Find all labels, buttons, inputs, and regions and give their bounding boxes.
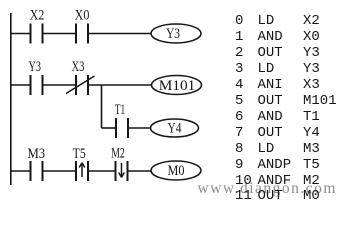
contact M3 bbox=[31, 161, 43, 181]
wire rung3: T5 to M2 bbox=[88, 170, 116, 172]
svg-text:X3: X3 bbox=[72, 59, 85, 75]
watermark www.diangon.com bbox=[198, 180, 337, 198]
down arrow of contact M2 bbox=[119, 163, 125, 177]
instruction list opcodes bbox=[258, 14, 292, 205]
svg-text:M2: M2 bbox=[111, 146, 125, 162]
slash of contact X3 bbox=[66, 76, 95, 94]
svg-text:X0: X0 bbox=[75, 8, 90, 24]
wire branch: junction to T1 bbox=[102, 127, 117, 129]
wire rung2: rail to Y3 contact bbox=[11, 84, 31, 86]
contact X2 bbox=[31, 24, 43, 44]
contact T5 (rising edge) bbox=[76, 161, 88, 181]
contact Y3 bbox=[31, 75, 43, 95]
svg-text:M101: M101 bbox=[159, 78, 196, 94]
svg-text:Y4: Y4 bbox=[168, 121, 182, 137]
wire rung1: rail to X2 bbox=[11, 33, 31, 35]
wire rung3: rail to M3 bbox=[11, 170, 31, 172]
svg-text:T5: T5 bbox=[73, 146, 86, 162]
wire branch: T1 to coil Y4 bbox=[128, 127, 151, 129]
svg-text:M3: M3 bbox=[27, 146, 45, 162]
instruction list step numbers bbox=[235, 14, 252, 205]
coil M101 bbox=[152, 76, 202, 95]
contact T1 bbox=[116, 118, 128, 138]
svg-text:Y3: Y3 bbox=[166, 26, 180, 42]
left power rail bbox=[10, 13, 12, 185]
svg-text:T1: T1 bbox=[115, 102, 126, 118]
contact X0 bbox=[76, 24, 88, 44]
wire rung3: M3 to T5 bbox=[43, 170, 77, 172]
contact X3 (normally closed) bbox=[76, 75, 88, 95]
wire rung1: X0 to coil Y3 bbox=[88, 33, 151, 35]
svg-text:X2: X2 bbox=[30, 8, 45, 24]
wire branch: vertical drop at junction bbox=[101, 85, 103, 128]
svg-text:M0: M0 bbox=[168, 163, 185, 179]
coil Y3 bbox=[151, 24, 201, 43]
contact M2 (falling edge) bbox=[116, 161, 128, 181]
coil M0 bbox=[151, 161, 201, 180]
wire rung3: M2 to coil M0 bbox=[128, 170, 152, 172]
wire rung2: X3 to coil M101 bbox=[88, 84, 152, 86]
up arrow of contact T5 bbox=[79, 163, 85, 177]
svg-text:Y3: Y3 bbox=[29, 59, 42, 75]
wire rung1: X2 to X0 bbox=[43, 33, 77, 35]
coil Y4 bbox=[151, 119, 199, 137]
wire rung2: Y3 to X3 bbox=[43, 84, 77, 86]
instruction list operands bbox=[303, 14, 337, 205]
